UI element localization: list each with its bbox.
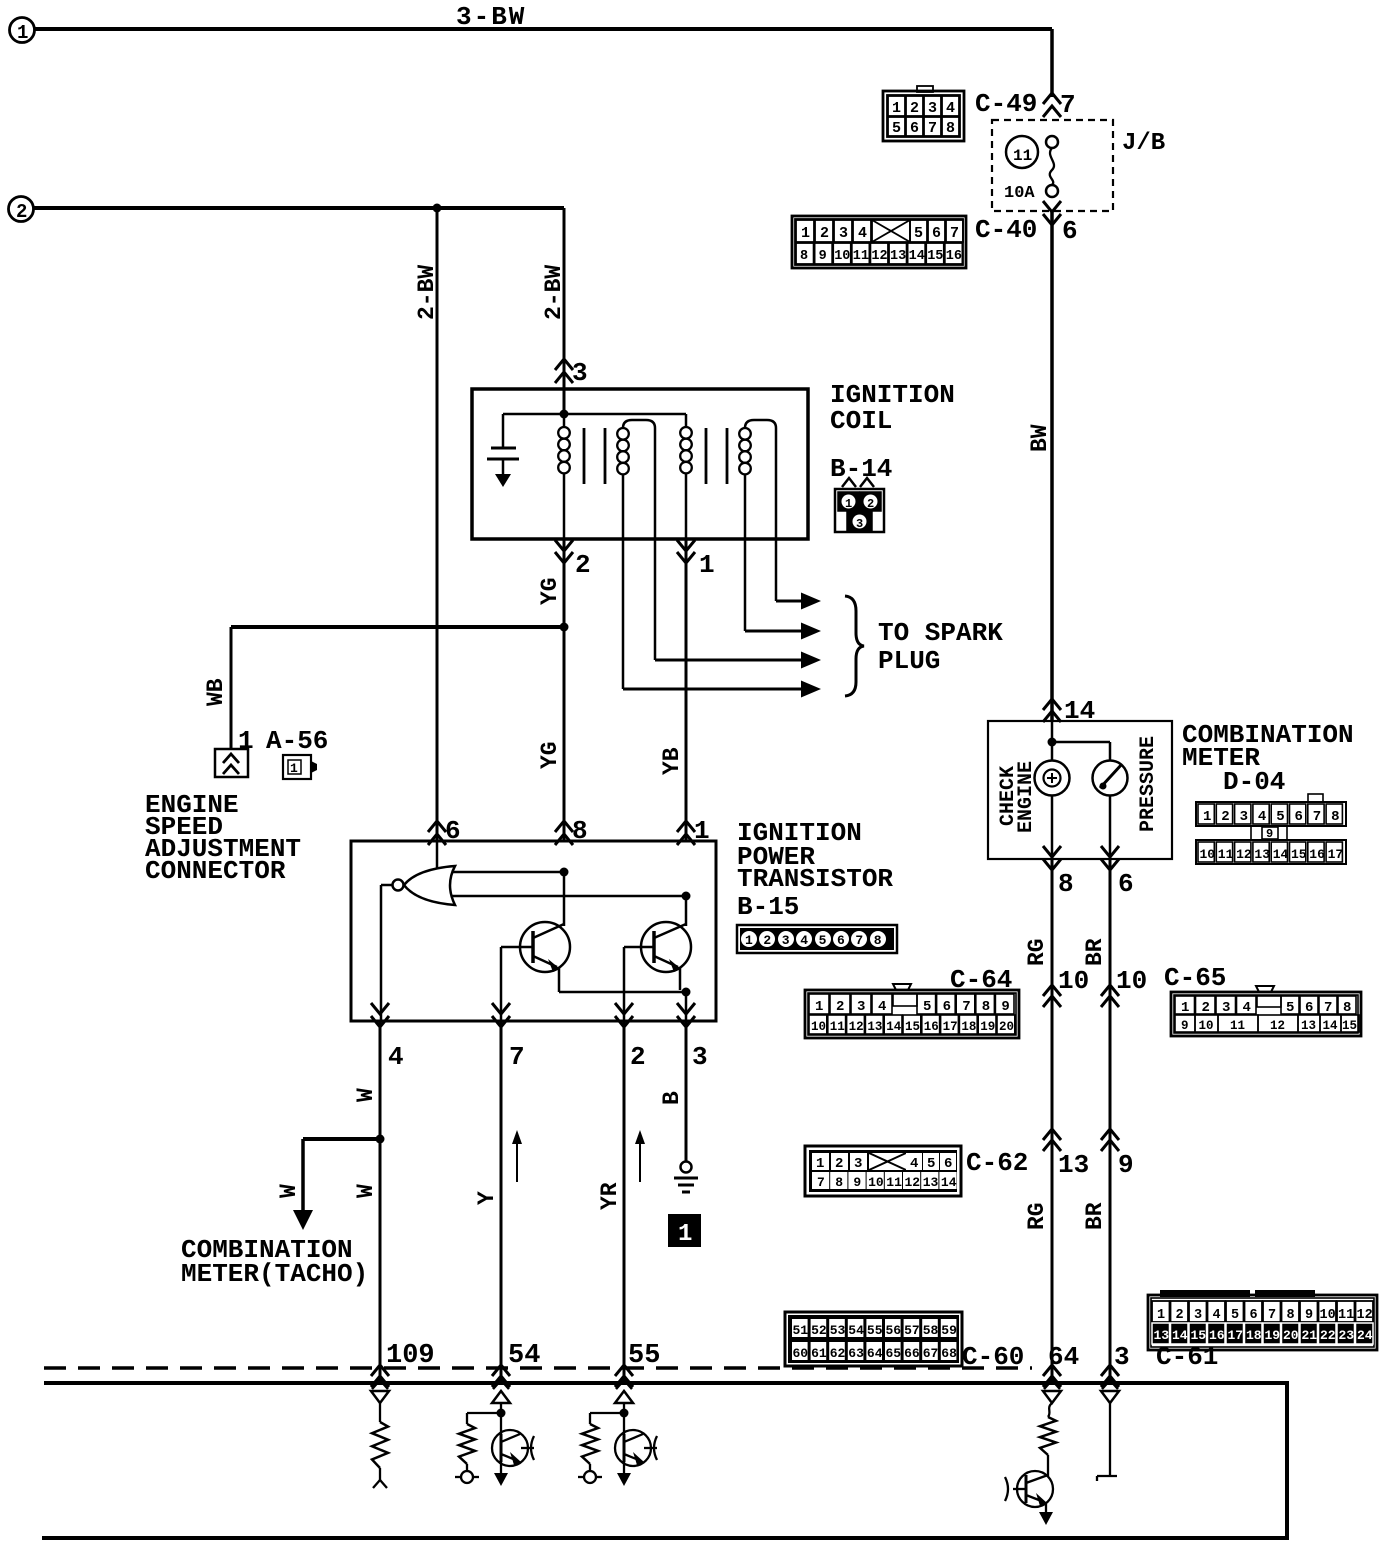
meter pin 6 arrow out <box>1101 846 1119 857</box>
svg-text:12: 12 <box>871 249 887 264</box>
pin 6 arrow out of J/B <box>1043 201 1061 212</box>
svg-text:C-60: C-60 <box>962 1342 1024 1372</box>
svg-text:1: 1 <box>678 1221 692 1248</box>
svg-text:B-14: B-14 <box>830 454 892 484</box>
logic gate <box>436 841 439 869</box>
svg-text:64: 64 <box>867 1346 883 1361</box>
svg-text:9: 9 <box>1001 999 1009 1015</box>
svg-text:4: 4 <box>878 999 886 1015</box>
svg-text:WB: WB <box>203 678 229 706</box>
node 1 (circled wire number) <box>10 18 35 43</box>
svg-text:2: 2 <box>867 497 874 511</box>
wire Y from pin 7 <box>500 1021 503 1381</box>
svg-text:14: 14 <box>1273 847 1289 862</box>
check engine lamp <box>1035 761 1070 796</box>
svg-text:22: 22 <box>1320 1328 1336 1343</box>
svg-text:9: 9 <box>819 249 827 264</box>
connector A-56 terminal symbol <box>215 749 248 777</box>
svg-text:YG: YG <box>537 577 563 605</box>
svg-text:3: 3 <box>928 100 937 117</box>
svg-text:ENGINE: ENGINE <box>1015 761 1038 833</box>
svg-text:7: 7 <box>1313 809 1321 825</box>
direction arrow on YR <box>639 1137 641 1182</box>
svg-text:3-BW: 3-BW <box>456 2 526 32</box>
svg-text:13: 13 <box>890 249 906 264</box>
pin 7 arrow into J/B <box>1043 93 1061 104</box>
ground terminal circle <box>681 1162 692 1173</box>
svg-text:66: 66 <box>904 1346 920 1361</box>
svg-text:9: 9 <box>1181 1019 1189 1033</box>
svg-text:12: 12 <box>849 1020 864 1034</box>
pin 2 arrow out <box>615 1003 633 1014</box>
svg-text:9: 9 <box>853 1175 861 1190</box>
svg-text:8: 8 <box>1331 809 1339 825</box>
svg-text:8: 8 <box>1058 869 1074 899</box>
svg-text:2: 2 <box>630 1042 646 1072</box>
svg-text:11: 11 <box>886 1175 902 1190</box>
pin 8 arrow into power transistor <box>555 821 573 832</box>
pin 54 into ECU <box>492 1365 510 1376</box>
svg-text:10: 10 <box>868 1175 884 1190</box>
svg-text:14: 14 <box>941 1175 957 1190</box>
gate output wire to pin 4 <box>381 884 392 887</box>
svg-text:D-04: D-04 <box>1223 767 1285 797</box>
svg-text:6: 6 <box>910 120 919 137</box>
svg-text:3: 3 <box>572 358 588 388</box>
svg-text:CONNECTOR: CONNECTOR <box>145 856 286 886</box>
svg-text:2: 2 <box>1176 1308 1184 1323</box>
svg-text:13: 13 <box>867 1020 882 1034</box>
ECU resistor on 55 <box>590 1412 624 1414</box>
ignition power transistor box <box>351 841 716 1021</box>
wire W from pin 4 <box>379 1021 382 1381</box>
pin 3 arrow into coil <box>555 359 573 370</box>
svg-text:4: 4 <box>910 1156 918 1172</box>
ECU transistor on 64 <box>1017 1471 1053 1507</box>
svg-text:7: 7 <box>1060 90 1076 120</box>
svg-text:11: 11 <box>830 1020 845 1034</box>
svg-text:6: 6 <box>943 999 951 1015</box>
wire YB from coil pin 1 <box>685 539 688 841</box>
transformer 1 core <box>583 428 586 484</box>
svg-text:15: 15 <box>1342 1019 1357 1033</box>
svg-text:1: 1 <box>892 100 901 117</box>
svg-text:10: 10 <box>1200 847 1216 862</box>
svg-text:24: 24 <box>1357 1328 1373 1343</box>
node 2 (circled wire number) <box>9 197 34 222</box>
capacitor <box>502 414 505 448</box>
svg-text:15: 15 <box>1191 1328 1207 1343</box>
svg-text:63: 63 <box>848 1346 864 1361</box>
junction block J/B (dashed box) <box>992 120 1113 211</box>
svg-text:1: 1 <box>815 999 823 1015</box>
transistor Q1 emitter wire <box>559 991 686 994</box>
ground reference 1 (black box) <box>668 1214 701 1247</box>
svg-text:C-40: C-40 <box>975 215 1037 245</box>
svg-text:10: 10 <box>1320 1308 1336 1323</box>
svg-text:BR: BR <box>1082 1202 1108 1230</box>
svg-text:C-65: C-65 <box>1164 963 1226 993</box>
lamp output wire <box>1051 796 1054 859</box>
spark plug lead 2 <box>744 539 747 631</box>
svg-text:6: 6 <box>1118 869 1134 899</box>
meter internal wires <box>1051 721 1054 760</box>
svg-text:5: 5 <box>892 120 901 137</box>
combination meter box <box>988 721 1172 859</box>
svg-text:J/B: J/B <box>1122 130 1165 157</box>
ECU resistor on 64 <box>1040 1417 1056 1455</box>
svg-text:5: 5 <box>1286 1000 1294 1016</box>
spark plug lead 4 <box>622 539 625 689</box>
svg-text:6: 6 <box>1305 1000 1313 1016</box>
svg-text:TO SPARK: TO SPARK <box>878 618 1003 648</box>
svg-text:3: 3 <box>1114 1342 1130 1372</box>
svg-text:C-49: C-49 <box>975 89 1037 119</box>
svg-text:8: 8 <box>835 1175 843 1190</box>
svg-text:PRESSURE: PRESSURE <box>1137 736 1160 832</box>
svg-text:14: 14 <box>886 1020 902 1034</box>
svg-text:8: 8 <box>946 120 955 137</box>
dashed harness line <box>44 1366 1032 1370</box>
svg-text:16: 16 <box>1309 847 1325 862</box>
svg-text:54: 54 <box>848 1323 864 1338</box>
svg-text:RG: RG <box>1024 938 1050 966</box>
wire to engine speed adjustment connector <box>231 625 564 629</box>
svg-text:57: 57 <box>904 1323 920 1338</box>
svg-text:2: 2 <box>820 225 829 242</box>
svg-text:2: 2 <box>763 933 771 948</box>
svg-text:13: 13 <box>923 1175 939 1190</box>
svg-text:59: 59 <box>941 1323 957 1338</box>
svg-text:METER(TACHO): METER(TACHO) <box>181 1259 368 1289</box>
direction arrow on Y <box>516 1137 518 1182</box>
wire YG from coil pin 2 <box>563 539 566 841</box>
svg-text:13: 13 <box>1154 1328 1170 1343</box>
svg-text:68: 68 <box>941 1346 957 1361</box>
svg-text:6: 6 <box>1250 1308 1258 1323</box>
svg-text:4: 4 <box>1243 1000 1251 1016</box>
svg-text:2: 2 <box>16 201 27 223</box>
transformer 1 primary winding <box>563 414 566 427</box>
svg-text:18: 18 <box>961 1020 976 1034</box>
ECU box <box>42 1383 1287 1538</box>
svg-text:1: 1 <box>699 550 715 580</box>
svg-text:3: 3 <box>782 933 790 948</box>
svg-text:B-15: B-15 <box>737 892 799 922</box>
svg-text:10A: 10A <box>1004 184 1035 203</box>
svg-text:15: 15 <box>1291 847 1307 862</box>
wire BW vertical drop from line 1 <box>1050 29 1054 97</box>
connector C-62 <box>805 1146 961 1196</box>
connector C-61 <box>1148 1295 1377 1350</box>
svg-text:1: 1 <box>745 933 753 948</box>
svg-text:10: 10 <box>834 249 850 264</box>
pin 4 arrow out <box>371 1003 389 1014</box>
svg-text:11: 11 <box>1230 1019 1245 1033</box>
wire pin 3 from emitter node <box>685 992 688 1021</box>
svg-text:7: 7 <box>509 1042 525 1072</box>
svg-text:13: 13 <box>1301 1019 1316 1033</box>
svg-text:15: 15 <box>927 249 943 264</box>
svg-text:16: 16 <box>946 249 962 264</box>
pin 13 arrow C-62 <box>1043 1129 1061 1140</box>
connector C-60 <box>785 1312 962 1366</box>
svg-text:18: 18 <box>1246 1328 1262 1343</box>
svg-text:W: W <box>353 1184 379 1198</box>
svg-text:1: 1 <box>1157 1308 1165 1323</box>
svg-text:12: 12 <box>905 1175 921 1190</box>
svg-text:6: 6 <box>944 1156 952 1172</box>
svg-text:3: 3 <box>839 225 848 242</box>
svg-text:7: 7 <box>962 999 970 1015</box>
ECU resistor on 109 <box>372 1422 388 1468</box>
svg-text:4: 4 <box>1258 809 1266 825</box>
svg-text:16: 16 <box>1209 1328 1225 1343</box>
connector B-14 <box>842 478 856 487</box>
transformer 2 secondary winding <box>745 420 776 428</box>
svg-text:11: 11 <box>1013 147 1032 165</box>
pin 10 arrow C-65 <box>1101 985 1119 996</box>
svg-text:YR: YR <box>597 1182 623 1210</box>
svg-text:Y: Y <box>474 1191 500 1205</box>
svg-text:14: 14 <box>1323 1019 1339 1033</box>
svg-text:67: 67 <box>923 1346 939 1361</box>
capacitor ground <box>495 474 511 487</box>
svg-text:1: 1 <box>801 225 810 242</box>
svg-text:4: 4 <box>858 225 867 242</box>
svg-text:2: 2 <box>575 550 591 580</box>
svg-text:14: 14 <box>909 249 925 264</box>
svg-text:5: 5 <box>927 1156 935 1172</box>
svg-text:7: 7 <box>928 120 937 137</box>
gauge output wire <box>1109 796 1112 859</box>
svg-text:BW: BW <box>1027 424 1053 452</box>
svg-text:3: 3 <box>692 1042 708 1072</box>
wire B from pin 3 to ground <box>685 1021 688 1161</box>
fuse element <box>1046 136 1058 148</box>
svg-text:5: 5 <box>914 225 923 242</box>
transformer 1 secondary winding <box>623 420 655 428</box>
svg-text:3: 3 <box>1194 1308 1202 1323</box>
svg-text:3: 3 <box>857 999 865 1015</box>
svg-text:8: 8 <box>800 249 808 264</box>
svg-text:60: 60 <box>793 1346 809 1361</box>
ECU pin 3 ground stub <box>1102 1380 1118 1389</box>
svg-text:2-BW: 2-BW <box>414 265 440 320</box>
svg-text:6: 6 <box>837 933 845 948</box>
meter pin 8 arrow out <box>1043 846 1061 857</box>
junction on wire 2 <box>433 204 442 213</box>
svg-text:11: 11 <box>853 249 869 264</box>
svg-text:8: 8 <box>982 999 990 1015</box>
gate wire to transistor Q2 collector node <box>452 895 686 898</box>
transformer 2 primary winding <box>685 414 688 427</box>
svg-text:1: 1 <box>238 726 254 756</box>
svg-text:7: 7 <box>855 933 863 948</box>
svg-text:5: 5 <box>1276 809 1284 825</box>
svg-text:10: 10 <box>811 1020 826 1034</box>
svg-text:53: 53 <box>830 1323 846 1338</box>
ECU pin 109 input <box>372 1380 388 1389</box>
svg-text:7: 7 <box>950 225 959 242</box>
gate wire to transistor Q1 collector node <box>452 871 564 874</box>
ignition coil box <box>472 389 808 539</box>
svg-text:11: 11 <box>1338 1308 1354 1323</box>
svg-text:61: 61 <box>811 1346 827 1361</box>
connector D-04 <box>1196 802 1346 826</box>
svg-text:17: 17 <box>1328 847 1344 862</box>
svg-text:2: 2 <box>1202 1000 1210 1016</box>
connector C-49 <box>883 91 964 141</box>
svg-text:5: 5 <box>923 999 931 1015</box>
wire 3-BW horizontal <box>35 27 1052 31</box>
svg-text:13: 13 <box>1254 847 1270 862</box>
brace for spark plug leads <box>845 596 864 696</box>
svg-text:4: 4 <box>388 1042 404 1072</box>
svg-text:17: 17 <box>1228 1328 1244 1343</box>
svg-text:17: 17 <box>943 1020 958 1034</box>
connector B-15 <box>737 925 897 953</box>
ground symbol <box>674 1177 698 1180</box>
svg-text:9: 9 <box>1305 1308 1313 1323</box>
wire BW vertical to combination meter <box>1050 211 1054 720</box>
svg-text:4: 4 <box>946 100 955 117</box>
svg-text:16: 16 <box>924 1020 939 1034</box>
svg-text:58: 58 <box>923 1323 939 1338</box>
svg-text:21: 21 <box>1302 1328 1318 1343</box>
svg-text:B: B <box>659 1091 685 1105</box>
svg-text:5: 5 <box>819 933 827 948</box>
transistor Q2 <box>641 922 691 972</box>
pin 1 arrow into power transistor <box>677 821 695 832</box>
svg-text:12: 12 <box>1236 847 1252 862</box>
wire 2 horizontal <box>33 206 564 210</box>
svg-text:3: 3 <box>1240 809 1248 825</box>
svg-text:62: 62 <box>830 1346 846 1361</box>
svg-text:2: 2 <box>836 999 844 1015</box>
svg-text:4: 4 <box>1213 1308 1221 1323</box>
pin 3 arrow out <box>677 1003 695 1014</box>
svg-text:10: 10 <box>1199 1019 1214 1033</box>
svg-text:W: W <box>353 1088 379 1102</box>
svg-text:1: 1 <box>1203 809 1211 825</box>
pin 10 arrow C-64 <box>1043 985 1061 996</box>
svg-text:19: 19 <box>980 1020 995 1034</box>
fuse 11 circled number <box>1006 136 1038 168</box>
svg-text:12: 12 <box>1357 1308 1373 1323</box>
svg-text:10: 10 <box>1058 966 1089 996</box>
wire YR from pin 2 <box>623 1021 626 1381</box>
svg-text:1: 1 <box>290 761 298 776</box>
ECU resistor on 54 <box>467 1412 501 1414</box>
svg-text:12: 12 <box>1270 1019 1285 1033</box>
svg-text:1: 1 <box>845 497 852 511</box>
svg-text:RG: RG <box>1024 1202 1050 1230</box>
coil pin 1 arrow <box>677 540 695 551</box>
ECU pin 55 driver <box>616 1380 632 1389</box>
pin 7 arrow out <box>492 1003 510 1014</box>
svg-text:COIL: COIL <box>830 406 892 436</box>
ECU transistor on 54 <box>492 1430 528 1466</box>
svg-text:15: 15 <box>905 1020 920 1034</box>
coil pin 2 arrow <box>555 540 573 551</box>
connector C-40 <box>792 216 966 268</box>
ECU pin 64 check engine driver <box>1044 1380 1060 1389</box>
svg-text:C-62: C-62 <box>966 1148 1028 1178</box>
svg-text:2-BW: 2-BW <box>541 265 567 320</box>
svg-text:13: 13 <box>1058 1150 1089 1180</box>
wire BR upper <box>1109 859 1112 1381</box>
pin 109 into ECU <box>371 1365 389 1376</box>
svg-text:6: 6 <box>1062 216 1078 246</box>
svg-text:7: 7 <box>1268 1308 1276 1323</box>
wire 2-BW vertical left branch <box>436 208 439 841</box>
pin 6 arrow into power transistor <box>428 821 446 832</box>
svg-text:51: 51 <box>793 1323 809 1338</box>
svg-text:14: 14 <box>1172 1328 1188 1343</box>
connector A-56 housing icon <box>283 755 311 779</box>
pin 14 arrow into combination meter <box>1043 699 1061 710</box>
connector C-64 <box>893 984 911 990</box>
svg-text:9: 9 <box>1266 827 1273 841</box>
svg-text:4: 4 <box>800 933 808 948</box>
coil internal bus wire <box>503 413 686 416</box>
svg-text:1: 1 <box>1181 1000 1189 1016</box>
svg-text:3: 3 <box>854 1156 862 1172</box>
svg-text:TRANSISTOR: TRANSISTOR <box>737 864 893 894</box>
svg-text:56: 56 <box>886 1323 902 1338</box>
svg-text:3: 3 <box>1222 1000 1230 1016</box>
svg-text:A-56: A-56 <box>266 726 328 756</box>
pin 9 arrow C-62 <box>1101 1129 1119 1140</box>
svg-text:10: 10 <box>1116 966 1147 996</box>
svg-text:PLUG: PLUG <box>878 646 940 676</box>
svg-text:1: 1 <box>816 1156 824 1172</box>
svg-text:20: 20 <box>1283 1328 1299 1343</box>
svg-text:W: W <box>276 1184 302 1198</box>
wire 2-BW vertical right branch to coil <box>563 208 566 414</box>
svg-text:2: 2 <box>1221 809 1229 825</box>
svg-text:YB: YB <box>659 747 685 775</box>
svg-text:8: 8 <box>1287 1308 1295 1323</box>
svg-text:55: 55 <box>867 1323 883 1338</box>
svg-text:BR: BR <box>1082 938 1108 966</box>
svg-text:65: 65 <box>886 1346 902 1361</box>
svg-text:6: 6 <box>1295 809 1303 825</box>
svg-text:52: 52 <box>811 1323 827 1338</box>
svg-text:7: 7 <box>817 1175 825 1190</box>
svg-text:8: 8 <box>1343 1000 1351 1016</box>
svg-text:6: 6 <box>932 225 941 242</box>
svg-text:20: 20 <box>999 1020 1014 1034</box>
wire RG upper <box>1051 859 1054 1381</box>
ECU pin 54 driver <box>493 1380 509 1389</box>
svg-text:23: 23 <box>1339 1328 1355 1343</box>
svg-text:2: 2 <box>910 100 919 117</box>
svg-text:11: 11 <box>1218 847 1234 862</box>
svg-text:2: 2 <box>835 1156 843 1172</box>
svg-text:YG: YG <box>537 741 563 769</box>
pressure gauge <box>1093 761 1128 796</box>
spark plug lead 1 <box>775 539 778 601</box>
connector C-65 <box>1256 986 1274 992</box>
transistor Q1 <box>520 922 570 972</box>
svg-text:19: 19 <box>1265 1328 1281 1343</box>
spark plug lead 3 <box>654 539 657 660</box>
svg-text:7: 7 <box>1324 1000 1332 1016</box>
svg-text:9: 9 <box>1118 1150 1134 1180</box>
svg-text:8: 8 <box>874 933 882 948</box>
